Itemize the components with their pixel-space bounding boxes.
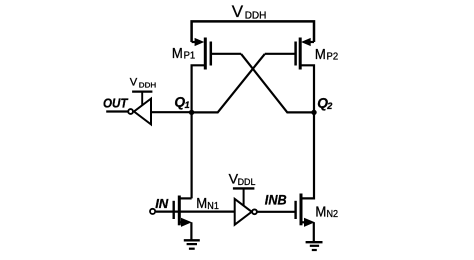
svg-text:DDL: DDL	[238, 177, 256, 188]
svg-text:V: V	[232, 2, 244, 21]
svg-text:M: M	[315, 47, 326, 63]
svg-text:M: M	[315, 205, 326, 221]
svg-text:V: V	[130, 77, 138, 89]
svg-text:1: 1	[185, 100, 190, 110]
svg-text:P2: P2	[327, 51, 339, 62]
svg-text:INB: INB	[265, 192, 287, 207]
svg-text:M: M	[196, 196, 207, 212]
svg-text:N2: N2	[327, 209, 339, 220]
svg-text:2: 2	[326, 101, 332, 111]
svg-text:OUT: OUT	[103, 95, 128, 110]
svg-text:DDH: DDH	[245, 10, 267, 21]
svg-text:P1: P1	[184, 51, 196, 62]
svg-text:IN: IN	[155, 196, 169, 211]
svg-text:DDH: DDH	[139, 81, 156, 90]
svg-text:M: M	[172, 46, 183, 62]
svg-text:N1: N1	[207, 201, 219, 212]
